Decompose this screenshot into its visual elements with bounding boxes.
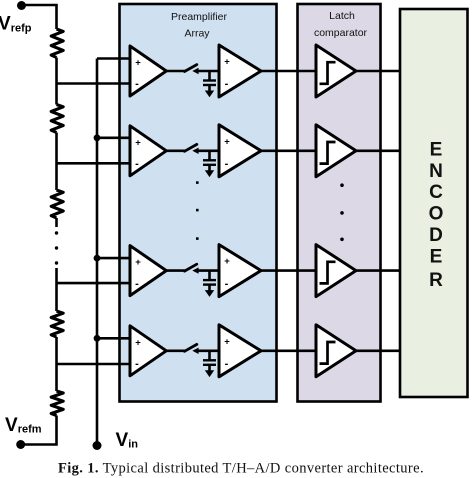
- preamp array ellipsis dots: [196, 181, 199, 184]
- wire U1B output to comparator 1: [261, 70, 317, 73]
- latch comparator box: [298, 4, 381, 402]
- svg-text:O: O: [429, 204, 444, 225]
- svg-text:-: -: [225, 358, 229, 370]
- ladder ellipsis dots: [55, 231, 58, 234]
- svg-text:+: +: [135, 58, 141, 69]
- wire row2 + input from Vin line: [97, 137, 131, 140]
- svg-text:R: R: [429, 270, 443, 291]
- wire switch S2 to U2B: [195, 150, 220, 153]
- op-amp preamp U4A: [130, 326, 166, 376]
- svg-text:Vrefm: Vrefm: [5, 415, 42, 436]
- wire U4A output to switch: [166, 349, 186, 352]
- switch S4 arrow contact: [192, 348, 198, 354]
- wire U2B output to comparator 2: [261, 150, 317, 153]
- switch S3 lever: [185, 264, 197, 271]
- svg-text:Array: Array: [184, 28, 210, 40]
- wire row1 + input from Vin line: [97, 57, 131, 60]
- svg-text:Fig. 1. Typical distributed T/: Fig. 1. Typical distributed T/H–A/D conv…: [58, 461, 424, 477]
- wire row1 - input from ladder tap: [57, 82, 132, 85]
- wire U4B output to comparator 4: [261, 349, 317, 352]
- op-amp U1B: [219, 45, 261, 97]
- ground C2: [205, 170, 214, 177]
- svg-text:-: -: [135, 278, 139, 290]
- node Vrefm terminal dot: [16, 440, 25, 449]
- op-amp U2B: [219, 125, 261, 177]
- wire comparator 1 output to encoder: [356, 70, 400, 73]
- svg-text:-: -: [135, 158, 139, 170]
- svg-text:comparator: comparator: [314, 27, 368, 39]
- svg-text:+: +: [224, 136, 230, 147]
- wire row3 - input from ladder tap: [57, 282, 132, 285]
- capacitor C4: [208, 351, 211, 360]
- capacitor C3: [208, 271, 211, 280]
- svg-text:-: -: [135, 358, 139, 370]
- svg-text:-: -: [225, 278, 229, 290]
- wire row3 + input from Vin line: [97, 257, 131, 260]
- wire ladder bottom to Vrefm: [21, 416, 57, 445]
- svg-text:E: E: [430, 139, 443, 160]
- svg-text:-: -: [225, 158, 229, 170]
- wire row2 - input from ladder tap: [57, 162, 132, 165]
- ground C3: [205, 290, 214, 297]
- node junction dot row2 on Vin line: [94, 134, 101, 141]
- capacitor C1: [208, 71, 211, 80]
- resistor R1: [51, 29, 63, 58]
- svg-text:+: +: [224, 336, 230, 347]
- resistor R4: [51, 311, 63, 337]
- encoder box: [400, 9, 468, 397]
- wire comparator 2 output to encoder: [356, 150, 400, 153]
- node junction dot row4 on Vin line: [94, 335, 101, 342]
- latch comparator X1: [316, 45, 356, 97]
- resistor R2: [51, 105, 63, 133]
- op-amp U3B: [219, 245, 261, 297]
- wire ladder segment R1-R2: [55, 58, 58, 105]
- ground C1: [205, 91, 214, 98]
- wire U2A output to switch: [166, 150, 186, 153]
- svg-text:D: D: [429, 225, 443, 246]
- wire ladder segment above ellipsis: [55, 218, 58, 227]
- svg-text:C: C: [429, 182, 443, 203]
- wire ladder segment R4-R5: [55, 337, 58, 391]
- svg-text:+: +: [224, 256, 230, 267]
- label ENCODER: [429, 139, 444, 291]
- wire Vin vertical distribution line: [96, 59, 99, 446]
- wire switch S4 to U4B: [195, 349, 220, 352]
- wire switch S3 to U3B: [195, 269, 220, 272]
- wire row4 + input from Vin line: [97, 337, 131, 340]
- svg-text:E: E: [430, 246, 443, 267]
- svg-text:-: -: [135, 78, 139, 90]
- resistor R3: [51, 190, 63, 218]
- op-amp preamp U3A: [130, 246, 166, 296]
- svg-text:Vrefp: Vrefp: [0, 14, 32, 35]
- latch comparator X4: [316, 325, 356, 377]
- svg-text:+: +: [135, 337, 141, 348]
- resistor R5: [51, 391, 63, 416]
- latch comparator X2: [316, 125, 356, 177]
- wire U1A output to switch: [166, 70, 186, 73]
- wire switch S1 to U1B: [195, 70, 220, 73]
- preamplifier array box: [120, 4, 277, 402]
- switch S4 lever: [185, 344, 197, 351]
- latch comparator X3: [316, 245, 356, 297]
- op-amp U4B: [219, 325, 261, 377]
- node Vrefp terminal dot: [17, 1, 26, 10]
- wire ladder segment R2-R3: [55, 133, 58, 191]
- node Vin terminal dot: [93, 441, 102, 450]
- wire U3B output to comparator 3: [261, 269, 317, 272]
- svg-text:+: +: [135, 257, 141, 268]
- wire row4 - input from ladder tap: [57, 363, 132, 366]
- capacitor C2: [208, 151, 211, 160]
- wire comparator 3 output to encoder: [356, 269, 400, 272]
- wire comparator 4 output to encoder: [356, 349, 400, 352]
- svg-text:N: N: [429, 161, 443, 182]
- op-amp preamp U2A: [130, 126, 166, 176]
- svg-text:Latch: Latch: [329, 10, 355, 22]
- switch S2 lever: [185, 144, 197, 151]
- wire ladder segment below ellipsis: [55, 268, 58, 311]
- latch column ellipsis dots: [340, 183, 344, 187]
- wire top from Vrefp to ladder: [22, 5, 57, 29]
- switch S1 arrow contact: [192, 68, 198, 74]
- svg-text:Vin: Vin: [116, 430, 139, 451]
- switch S1 lever: [185, 65, 197, 72]
- svg-text:-: -: [225, 78, 229, 90]
- ground C4: [205, 370, 214, 377]
- node junction dot row3 on Vin line: [94, 255, 101, 262]
- wire U3A output to switch: [166, 269, 186, 272]
- svg-text:+: +: [135, 137, 141, 148]
- svg-text:Preamplifier: Preamplifier: [171, 11, 228, 23]
- op-amp preamp U1A: [130, 46, 166, 96]
- switch S3 arrow contact: [192, 267, 198, 273]
- svg-text:+: +: [224, 57, 230, 68]
- switch S2 arrow contact: [192, 148, 198, 154]
